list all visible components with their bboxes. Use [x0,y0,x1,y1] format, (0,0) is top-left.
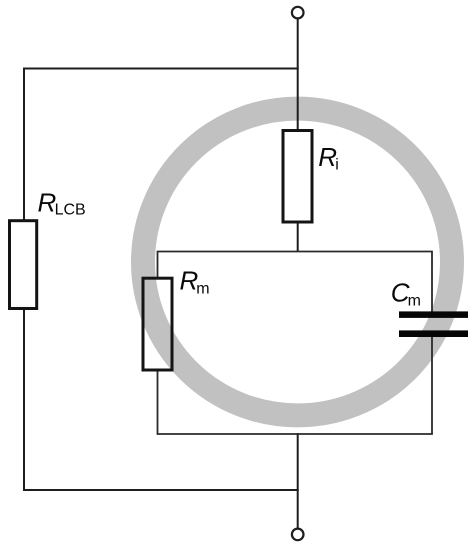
svg-text:LCB: LCB [55,201,86,218]
wire: top terminal down to Ri [297,18,299,131]
bottom terminal [292,529,304,541]
resistor R_i [283,131,312,223]
capacitor C_m bottom plate [399,330,468,337]
wire: box bottom down to bottom terminal [297,433,299,529]
wire: top horizontal (left branch to top node) [23,68,299,70]
resistor R_LCB [10,221,37,309]
svg-text:i: i [335,157,339,174]
svg-text:R: R [38,188,57,218]
label R_m [180,266,210,298]
label R_LCB [38,188,86,219]
resistor R_m [143,278,172,370]
wire: left vertical upper [23,68,25,223]
svg-text:R: R [318,142,337,172]
gray ring (measurement cell outline) [143,109,452,416]
wire: Ri bottom to measurement box [297,221,299,252]
wire: bottom horizontal [23,489,299,491]
wire: left vertical lower [23,308,25,491]
measurement box (right edge interrupted by capacitor Cm) [158,252,433,435]
svg-text:m: m [196,281,209,298]
label C_m [391,277,421,309]
top terminal [292,7,304,19]
label R_i [318,142,339,174]
svg-text:m: m [408,293,421,310]
capacitor C_m top plate [399,311,468,318]
